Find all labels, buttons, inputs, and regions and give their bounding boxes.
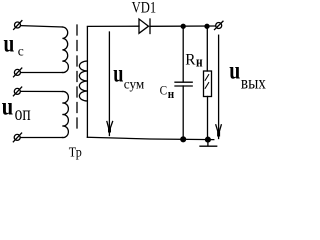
wire T4 to primary coil L2 bottom bbox=[21, 137, 63, 139]
terminal T1 (u_c top) bbox=[14, 21, 22, 30]
label u_sum bbox=[113, 61, 144, 92]
svg-text:u: u bbox=[229, 57, 240, 84]
svg-text:сум: сум bbox=[124, 76, 145, 91]
transformer core (dashed) bbox=[76, 25, 78, 132]
svg-text:u: u bbox=[2, 94, 13, 121]
svg-text:Тр: Тр bbox=[69, 146, 82, 161]
node dot J4 (bottom, R branch) bbox=[206, 137, 211, 142]
u_sum arrowhead bbox=[107, 122, 113, 133]
svg-text:VD1: VD1 bbox=[132, 0, 157, 17]
label u_c bbox=[4, 31, 24, 59]
label R_n bbox=[185, 51, 202, 70]
u_vyh arrowhead bbox=[216, 125, 222, 137]
wire R branch vertical upper bbox=[206, 26, 208, 71]
node dot J1 (top, C branch) bbox=[181, 24, 185, 28]
terminal T2 (u_c bottom) bbox=[14, 68, 22, 77]
terminal T5 (output top right) bbox=[215, 21, 224, 29]
ground stub bbox=[207, 140, 209, 146]
svg-text:оп: оп bbox=[15, 104, 31, 125]
capacitor C_n plates bbox=[175, 82, 192, 86]
bottom rail wire bbox=[87, 137, 213, 139]
label u_op bbox=[2, 94, 31, 126]
node dot J3 (bottom, C branch) bbox=[181, 137, 186, 142]
svg-text:u: u bbox=[4, 31, 15, 58]
label C_n bbox=[160, 84, 175, 102]
svg-text:н: н bbox=[196, 54, 203, 70]
wire diode to output terminal bbox=[150, 25, 216, 27]
wire C branch vertical upper bbox=[182, 26, 184, 82]
winding L1 (primary upper) bbox=[62, 27, 68, 73]
node dot J2 (top, R branch) bbox=[205, 24, 209, 28]
wire T3 to primary coil L2 bbox=[21, 90, 63, 92]
svg-text:н: н bbox=[168, 87, 174, 101]
wire T2 to primary coil L1 bottom bbox=[21, 72, 63, 74]
u_sum arrow shaft bbox=[108, 32, 110, 136]
label u_vyh bbox=[229, 57, 266, 92]
svg-text:вых: вых bbox=[241, 73, 266, 93]
ground bar bbox=[200, 145, 217, 147]
terminal T4 (u_op bottom) bbox=[13, 133, 21, 142]
resistor R_n body bbox=[204, 71, 212, 97]
svg-text:c: c bbox=[18, 44, 24, 59]
wire secondary top to diode bbox=[87, 25, 139, 27]
u_vyh arrow shaft bbox=[218, 35, 220, 138]
winding L2 (primary lower) bbox=[62, 91, 68, 137]
wire C branch vertical lower bbox=[182, 86, 184, 139]
winding L3 (secondary) vertical line bbox=[86, 27, 88, 137]
svg-text:C: C bbox=[160, 84, 168, 98]
diode VD1 bbox=[139, 19, 150, 34]
svg-text:u: u bbox=[113, 61, 123, 88]
winding L3 scallops bbox=[79, 61, 87, 101]
wire R branch vertical lower bbox=[207, 97, 209, 140]
terminal T3 (u_op top) bbox=[13, 87, 21, 96]
wire T1 to primary coil L1 bbox=[21, 26, 63, 27]
svg-text:R: R bbox=[185, 51, 196, 68]
